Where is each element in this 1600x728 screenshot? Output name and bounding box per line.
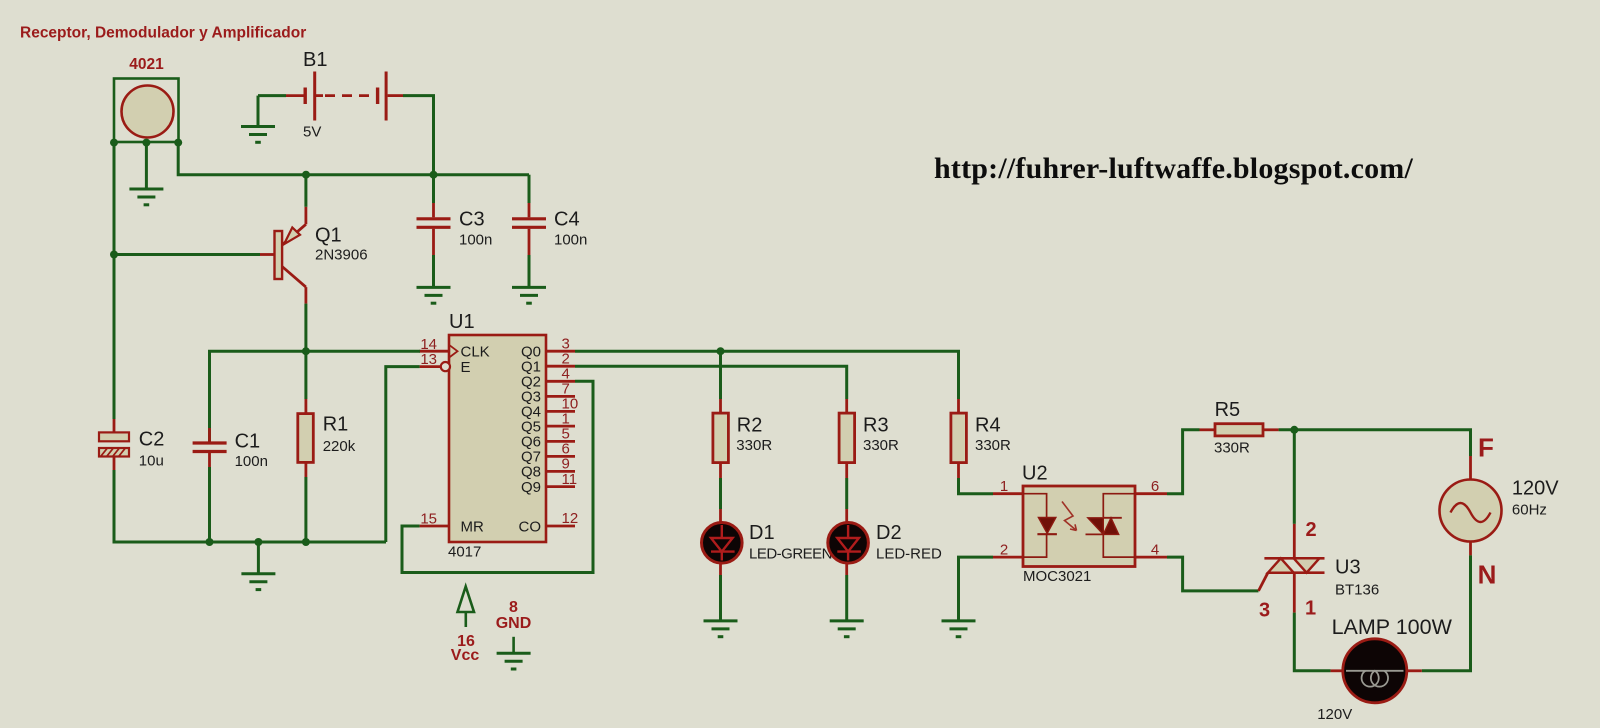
resistor R5 [1200, 424, 1279, 436]
resistor R4 [951, 399, 967, 478]
triac U3 pin 3 label [1259, 600, 1270, 622]
svg-text:B1: B1 [303, 49, 327, 71]
wire Q1 collector down [304, 304, 307, 352]
wire R1 top [304, 351, 307, 399]
pin 2 number [1000, 542, 1008, 559]
wire AC source to lamp [1422, 555, 1471, 670]
node rail battery/C3 [430, 171, 438, 179]
pin 6 Q7 stub [546, 455, 575, 458]
pin 11 number [562, 471, 578, 488]
pin 6 number [1151, 478, 1159, 495]
battery B1 value 5V [303, 124, 321, 141]
resistor R4 value 330R [975, 437, 1011, 454]
LED D2 label [876, 522, 902, 544]
pin name Q4 [521, 404, 541, 421]
AC source F label [1478, 433, 1494, 463]
capacitor C4 label [554, 209, 580, 231]
svg-text:2N3906: 2N3906 [315, 247, 368, 264]
svg-text:C1: C1 [235, 431, 261, 453]
svg-text:100n: 100n [459, 232, 492, 249]
triac U3 pin 2 lead [1293, 524, 1296, 558]
svg-text:BT136: BT136 [1335, 582, 1379, 599]
node rail Q1 emitter [302, 171, 310, 179]
wire MR loop to Q2 [402, 381, 593, 572]
transistor Q1 label [315, 225, 342, 247]
wire E to ground rail [386, 367, 420, 542]
svg-text:CLK: CLK [461, 344, 490, 361]
ground under C4 [512, 287, 546, 303]
svg-text:MR: MR [461, 518, 484, 535]
svg-text:R5: R5 [1215, 399, 1241, 421]
svg-text:100n: 100n [554, 232, 587, 249]
wire C1 bottom to ground rail [208, 467, 211, 542]
wire R5 to F line [1279, 430, 1471, 456]
wire ground rail stem [257, 542, 260, 574]
wire base horizontal [114, 253, 260, 256]
pin 5 Q6 stub [546, 440, 575, 443]
pin name Q7 [521, 449, 541, 466]
svg-text:11: 11 [562, 471, 578, 488]
capacitor C4 [512, 203, 546, 255]
pin name Q3 [521, 389, 541, 406]
lamp L1 [1331, 639, 1422, 703]
pin name Q2 [521, 374, 541, 391]
wire battery ground stem [257, 96, 260, 127]
svg-text:100n: 100n [235, 453, 268, 470]
svg-text:3: 3 [1259, 600, 1270, 622]
wire sensor mid to ground [145, 143, 148, 189]
resistor R3 value 330R [863, 437, 899, 454]
ground under battery [241, 127, 275, 143]
wire C4 to ground [528, 255, 531, 287]
svg-text:C2: C2 [139, 429, 165, 451]
AC source N label [1478, 560, 1497, 590]
capacitor C1 [193, 428, 227, 467]
wire Q1 to R3 [575, 366, 847, 399]
triac U3 value BT136 [1335, 582, 1379, 599]
svg-text:U3: U3 [1335, 557, 1361, 579]
AC source V1 [1440, 456, 1502, 555]
wire CLK from C1 [418, 350, 421, 353]
resistor R2 value 330R [736, 437, 772, 454]
svg-text:MOC3021: MOC3021 [1023, 568, 1091, 585]
triac U3 label [1335, 557, 1361, 579]
pin 4 number [1151, 542, 1159, 559]
triac U3 pin 2 label [1305, 519, 1316, 541]
node ground rail tap [254, 538, 262, 546]
url watermark text [934, 152, 1413, 185]
U2 internal triac [1086, 494, 1136, 557]
svg-text:Receptor, Demodulador y Amplif: Receptor, Demodulador y Amplificador [20, 25, 306, 42]
pin 10 number [562, 396, 579, 413]
LED D2 [828, 509, 869, 575]
capacitor C2 value 10u [139, 453, 164, 470]
pin 15 number [420, 511, 437, 528]
Vcc pin 16 label [457, 633, 475, 650]
wire sensor right to vcc rail [178, 143, 529, 175]
pin 7 number [562, 381, 570, 398]
pin 1 Q5 stub [546, 425, 575, 428]
resistor R3 [839, 399, 855, 478]
battery B1 label [303, 49, 327, 71]
svg-text:4: 4 [1151, 542, 1159, 559]
resistor R5 value 330R [1214, 440, 1250, 457]
wire C1 top to CLK wire corner [210, 351, 421, 442]
svg-text:8: 8 [509, 599, 518, 616]
svg-text:120V: 120V [1512, 478, 1559, 500]
ground under sensor [129, 189, 163, 205]
node R1 ground rail [302, 538, 310, 546]
pin name Q1 [521, 359, 541, 376]
svg-text:R2: R2 [737, 415, 763, 437]
node sensor pin2 [142, 139, 150, 147]
pin 1 number [562, 410, 570, 427]
wire C2 bottom to ground rail [114, 470, 386, 542]
svg-text:LED-GREEN: LED-GREEN [749, 546, 832, 563]
pin name MR [461, 518, 484, 535]
pin 4 Q2 stub [546, 380, 575, 383]
GND name label [496, 615, 532, 632]
LED D1 value LED-GREEN [749, 546, 832, 563]
resistor R5 label [1215, 399, 1241, 421]
IC U1 body 4017 [449, 335, 546, 542]
pin name CLK [461, 344, 490, 361]
wire C3 to ground [432, 255, 435, 287]
wire node down to triac [1293, 430, 1296, 524]
LED D1 label [749, 522, 775, 544]
pin 1 U2 stub [993, 492, 1023, 495]
AC source 60Hz label [1512, 502, 1547, 519]
pin 5 number [562, 426, 570, 443]
svg-text:1: 1 [1305, 598, 1316, 620]
optocoupler U2 label [1022, 463, 1048, 485]
pin 15 MR stub [420, 525, 449, 528]
pin name Q6 [521, 434, 541, 451]
svg-text:C3: C3 [459, 209, 485, 231]
wire R1 bottom to ground rail [304, 477, 307, 542]
svg-text:CO: CO [519, 518, 542, 535]
svg-text:E: E [461, 359, 471, 376]
pin name Q8 [521, 464, 541, 481]
wire battery left lead [258, 94, 286, 97]
ground under rail [241, 574, 275, 590]
pin name Q0 [521, 344, 541, 361]
node sensor pin1 [110, 139, 118, 147]
GND pin 8 label [509, 599, 518, 616]
svg-text:LED-RED: LED-RED [876, 546, 942, 563]
svg-text:330R: 330R [975, 437, 1011, 454]
triac U3 pin 1 lead [1293, 573, 1296, 613]
capacitor C2 electrolytic [99, 432, 129, 470]
svg-text:R1: R1 [323, 414, 349, 436]
node C1 ground rail [206, 538, 214, 546]
wire R2 to D1 [719, 478, 722, 509]
svg-text:5V: 5V [303, 124, 321, 141]
optocoupler U2 part number MOC3021 [1023, 568, 1091, 585]
wire U2 pin6 up to R5 [1167, 430, 1200, 494]
title text [20, 25, 306, 42]
svg-text:U2: U2 [1022, 463, 1048, 485]
node R5 triac [1290, 426, 1298, 434]
pin name CO [519, 518, 542, 535]
pin 4 number [562, 366, 570, 383]
battery B1 symbol [286, 72, 403, 121]
pin 12 CO stub [546, 525, 575, 528]
svg-text:F: F [1478, 433, 1494, 463]
node base tap [110, 251, 118, 259]
pin 12 number [562, 510, 579, 527]
svg-text:1: 1 [1000, 478, 1008, 495]
IR receiver sensor 4021 label [129, 56, 164, 73]
IR receiver sensor box [114, 79, 179, 143]
pin 11 Q9 stub [546, 485, 575, 488]
wire D1 to ground [719, 575, 722, 621]
pin name Q5 [521, 418, 541, 435]
pin 9 Q8 stub [546, 470, 575, 473]
lamp label LAMP 100W [1332, 615, 1453, 639]
LED D2 value LED-RED [876, 546, 942, 563]
capacitor C1 label [235, 431, 261, 453]
node sensor pin3 [174, 139, 182, 147]
svg-text:4017: 4017 [448, 544, 481, 561]
pin 9 number [562, 456, 570, 473]
pin 14 CLK stub [420, 350, 449, 353]
LED D1 [702, 509, 743, 575]
svg-text:D1: D1 [749, 522, 775, 544]
wire Q0 node down to R2 [719, 351, 722, 399]
svg-text:330R: 330R [863, 437, 899, 454]
wire battery right to rail [403, 96, 434, 175]
resistor R4 label [975, 415, 1001, 437]
wire R3 to D2 [845, 478, 848, 509]
pin 4 U2 stub [1135, 556, 1167, 559]
svg-text:R3: R3 [863, 415, 889, 437]
svg-text:U1: U1 [449, 311, 475, 333]
svg-text:Q9: Q9 [521, 479, 541, 496]
ground under U2 pin2 [942, 621, 976, 637]
pin 10 Q4 stub [546, 410, 575, 413]
capacitor C3 [417, 203, 451, 255]
svg-text:R4: R4 [975, 415, 1001, 437]
svg-text:60Hz: 60Hz [1512, 502, 1547, 519]
svg-text:15: 15 [420, 511, 437, 528]
U2 internal light arrow [1062, 502, 1077, 531]
svg-text:10u: 10u [139, 453, 164, 470]
ground under D1 [704, 621, 738, 637]
triac U3 pin 1 label [1305, 598, 1316, 620]
svg-text:4021: 4021 [129, 56, 164, 73]
wire U2 pin2 to ground [959, 557, 994, 621]
wire sensor left down to C2 [113, 143, 116, 419]
IC U1 label [449, 311, 475, 333]
pin 3 Q0 stub [546, 350, 575, 353]
GND pin stem [512, 637, 515, 653]
ground for pin 8 [497, 653, 531, 669]
lamp value 120V [1317, 706, 1352, 723]
ground under C3 [417, 287, 451, 303]
pin 2 U2 stub [993, 556, 1023, 559]
transistor Q1 value 2N3906 [315, 247, 368, 264]
Vcc arrow 16 [458, 587, 475, 628]
resistor R2 label [737, 415, 763, 437]
transistor Q1 [260, 207, 306, 304]
optocoupler U2 body [1023, 486, 1135, 567]
node Q0 / R2 [717, 347, 725, 355]
wire rail to C4 [528, 175, 531, 203]
svg-text:220k: 220k [323, 438, 356, 455]
wire Q1 emitter to rail [304, 175, 307, 207]
AC source 120V label [1512, 478, 1559, 500]
pin 6 number [562, 441, 570, 458]
pin 1 number [1000, 478, 1008, 495]
svg-text:D2: D2 [876, 522, 902, 544]
svg-text:2: 2 [1305, 519, 1316, 541]
ground under D2 [830, 621, 864, 637]
svg-text:Vcc: Vcc [451, 647, 480, 664]
svg-text:GND: GND [496, 615, 532, 632]
IR receiver sensor circle [122, 86, 174, 138]
svg-text:330R: 330R [1214, 440, 1250, 457]
svg-text:Q1: Q1 [315, 225, 342, 247]
svg-text:12: 12 [562, 510, 579, 527]
resistor R1 [298, 399, 314, 477]
IC U1 part number 4017 [448, 544, 481, 561]
resistor R1 label [323, 414, 349, 436]
wire triac to lamp [1294, 613, 1330, 671]
pin 3 number [562, 335, 570, 352]
capacitor C2 label [139, 429, 165, 451]
svg-text:N: N [1478, 560, 1497, 590]
pin 13 number [420, 351, 437, 368]
triac U3 symbol [1259, 558, 1325, 591]
wire rail to C3 [432, 175, 435, 203]
svg-text:C4: C4 [554, 209, 580, 231]
resistor R2 [713, 399, 729, 478]
wire Q0 to R2 and R4 [575, 351, 959, 399]
wire base tap down to C2 [113, 419, 116, 432]
wire R4 to U2 pin1 [959, 478, 994, 494]
node CLK wire / R1 top [302, 347, 310, 355]
capacitor C4 value [554, 232, 587, 249]
Vcc name label [451, 647, 480, 664]
resistor R3 label [863, 415, 889, 437]
svg-text:120V: 120V [1317, 706, 1352, 723]
svg-text:6: 6 [1151, 478, 1159, 495]
svg-text:http://fuhrer-luftwaffe.blogsp: http://fuhrer-luftwaffe.blogspot.com/ [934, 152, 1413, 185]
svg-text:13: 13 [420, 351, 437, 368]
svg-text:2: 2 [1000, 542, 1008, 559]
pin name E [461, 359, 471, 376]
pin 13 E stub with bubble [420, 362, 450, 371]
U2 internal LED [1023, 494, 1057, 557]
svg-text:330R: 330R [736, 437, 772, 454]
pin CLK clock triangle [449, 345, 458, 358]
capacitor C3 label [459, 209, 485, 231]
pin name Q9 [521, 479, 541, 496]
pin 2 Q1 stub [546, 365, 575, 368]
capacitor C3 value [459, 232, 492, 249]
pin 7 Q3 stub [546, 395, 575, 398]
wire D2 to ground [845, 575, 848, 621]
pin 14 number [420, 336, 437, 353]
wire U2 pin4 to triac gate [1167, 557, 1259, 591]
pin 2 number [562, 350, 570, 367]
pin 6 U2 stub [1135, 492, 1167, 495]
resistor R1 value 220k [323, 438, 356, 455]
svg-text:LAMP 100W: LAMP 100W [1332, 615, 1453, 639]
capacitor C1 value [235, 453, 268, 470]
